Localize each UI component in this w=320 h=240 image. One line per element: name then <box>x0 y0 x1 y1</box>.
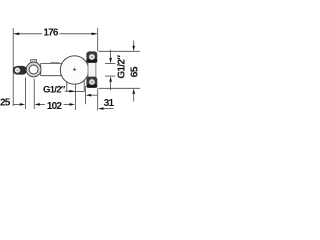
left port hole <box>15 67 21 73</box>
svg-text:176: 176 <box>43 27 59 38</box>
G1/2 vertical dim terminator ticks <box>105 63 115 65</box>
svg-text:G1/2″: G1/2″ <box>43 84 66 95</box>
svg-text:25: 25 <box>0 97 11 108</box>
supply pipe body (between escutcheon and valve body) <box>41 63 64 75</box>
extension line y=51.3 (top of connections) <box>99 50 141 52</box>
extension line y=88.3 (bottom of connections) <box>99 87 141 89</box>
dim 65 down arrow <box>133 40 135 47</box>
dim 65 up arrow <box>132 89 135 94</box>
dimension line 176 <box>14 33 42 35</box>
dim 25 arrow <box>14 103 21 105</box>
valve outlet flange (bottom of body) <box>67 78 84 91</box>
escutcheon ring outer <box>26 62 41 77</box>
top nut hole <box>89 54 95 60</box>
small ridge on pipe top <box>50 62 61 65</box>
svg-text:31: 31 <box>104 98 115 109</box>
top union nut <box>86 51 97 62</box>
extension line right (x=97.7) lower for dim 31 <box>97 88 99 110</box>
arrowhead 176 left <box>13 33 19 36</box>
center mark crosshair <box>71 69 78 71</box>
dim 102 right arrowhead <box>64 103 71 105</box>
svg-text:65: 65 <box>128 66 140 77</box>
extension line x=85.6 (outlet right) <box>85 86 87 104</box>
leader arrow G1/2 <box>65 90 71 92</box>
extension line x=25.6 (escutcheon left edge) <box>25 78 27 110</box>
escutcheon ring inner <box>29 65 38 74</box>
dim 31 right arrow (points left at x=97.7) <box>98 107 103 110</box>
bottom union nut <box>86 77 97 88</box>
arrowhead 176 right <box>92 33 98 36</box>
dim 31 left arrow (points left at x=85.6) <box>86 94 91 97</box>
svg-text:G1/2″: G1/2″ <box>117 55 128 79</box>
extension line x=34.2 (escutcheon center) <box>33 79 35 110</box>
bottom nut hole <box>89 79 95 85</box>
right connector block between nuts <box>88 62 96 77</box>
valve main body circle <box>60 56 88 84</box>
escutcheon ring top tab <box>31 60 37 63</box>
extension line x=75.6 (outlet centerline) <box>75 84 77 110</box>
G1/2 vertical down arrow <box>110 50 112 59</box>
G1/2 vertical up arrow <box>109 76 112 81</box>
left inlet port (dark capsule) <box>13 66 27 75</box>
svg-text:102: 102 <box>47 101 63 112</box>
extension line right (x=97.7) upper for dim 176 <box>97 28 99 52</box>
extension line left (x=13) for dim 176 / 25 <box>12 28 14 106</box>
dim 102 left arrowhead <box>35 103 40 106</box>
